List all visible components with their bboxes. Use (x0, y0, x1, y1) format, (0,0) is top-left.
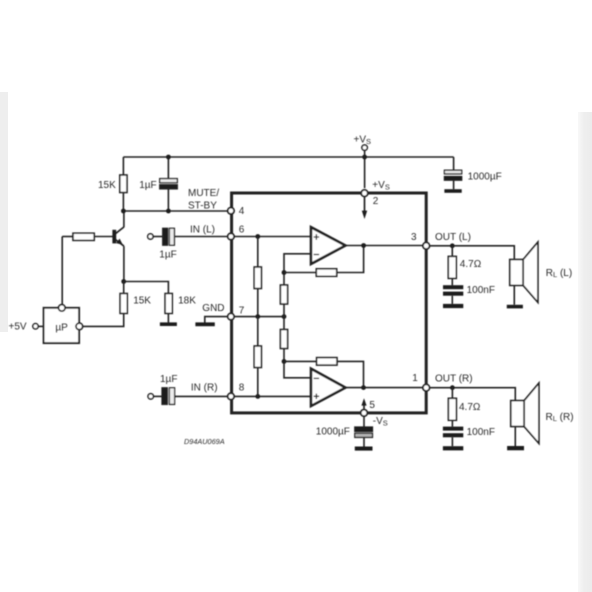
IC box TDA outline (232, 193, 427, 413)
svg-text:D94AU069A: D94AU069A (184, 437, 225, 446)
svg-text:-VS: -VS (373, 416, 388, 428)
input terminal IN(L) (148, 234, 153, 239)
pin 2 arrow into IC (362, 197, 367, 219)
ground (1000uF bottom) (355, 447, 373, 451)
capacitor C1 1uF plates (160, 179, 178, 189)
ground (GND pin 7) (195, 322, 214, 326)
svg-text:3: 3 (411, 232, 417, 243)
wire: pin 1 to speaker R (430, 388, 516, 401)
wire: pin 3 to speaker L (430, 246, 515, 260)
wire: junction to 4.7ohm R (451, 388, 453, 399)
node: supply junction over C1 (166, 155, 171, 160)
node: emitter junction (121, 279, 126, 284)
svg-text:+VS: +VS (354, 135, 372, 147)
wire: Rb to row7 (283, 304, 285, 317)
svg-text:GND: GND (202, 303, 224, 314)
pin 5 circle (361, 410, 368, 417)
pin 2 circle (361, 190, 368, 197)
wire: +5V to uP (38, 325, 43, 327)
wire: emitter junction to R3 (123, 282, 125, 294)
ground (18K) (160, 322, 177, 326)
uP top pin circle (59, 305, 66, 312)
+5V terminal (33, 324, 38, 329)
ground (speaker L) (507, 305, 523, 309)
svg-text:1µF: 1µF (139, 180, 156, 191)
wire: amp2 output row to pin 1 (345, 387, 423, 389)
resistor 4.7ohm R (448, 398, 456, 420)
wire: 1000uF top cap drop (453, 157, 455, 170)
svg-text:IN (R): IN (R) (191, 383, 218, 394)
pin 3 circle (423, 243, 430, 250)
ground (top right 1000uF) (444, 189, 461, 193)
svg-text:2: 2 (373, 196, 379, 207)
svg-text:4: 4 (239, 206, 245, 217)
svg-text:4.7Ω: 4.7Ω (460, 259, 482, 270)
wire: amp1 inverting input (284, 254, 311, 273)
wire: top supply rail (123, 156, 453, 158)
wire: Ra to row7 (257, 289, 259, 317)
resistor R2 (base, horizontal) (73, 233, 94, 240)
wire: junction to 4.7ohm L (451, 246, 453, 257)
op-amp A2 (right channel) (311, 369, 345, 406)
wire: feedback left segment top (284, 272, 316, 274)
wire: 100nF L to ground (451, 296, 453, 304)
node: mute row junction R1 (121, 209, 126, 214)
wire: R2 to left column (62, 236, 73, 238)
wire: Rd to feedback junction bottom (283, 349, 285, 362)
svg-text:OUT (L): OUT (L) (435, 232, 471, 243)
resistor R3 15K (lower left) (120, 294, 127, 314)
wire: 1000uF to ground (453, 180, 455, 189)
svg-text:1000µF: 1000µF (316, 426, 350, 437)
resistor feedback bottom (317, 358, 337, 366)
wire: amp2 inverting input (284, 361, 311, 377)
svg-text:4.7Ω: 4.7Ω (459, 402, 481, 413)
wire: terminal to C3 (153, 395, 162, 397)
wire: 100nF R to ground (451, 437, 453, 446)
svg-text:RL (L): RL (L) (546, 268, 572, 279)
svg-text:+VS: +VS (372, 180, 390, 192)
wire: row7 to Rd (283, 317, 285, 330)
wire: emitter junction over to 18K (124, 282, 169, 294)
transistor Q1 base wire (94, 236, 112, 238)
wire: feedback right segment bottom (337, 361, 364, 387)
svg-text:100nF: 100nF (467, 285, 495, 296)
capacitor 1000uF (top right) plates (444, 170, 461, 180)
node: out L junction (450, 243, 455, 248)
node: row6 junction (255, 234, 260, 239)
svg-text:1000µF: 1000µF (468, 171, 502, 182)
wire: left column to R1 top (122, 157, 124, 175)
svg-text:IN (L): IN (L) (190, 225, 215, 236)
resistor internal Rc (254, 346, 261, 368)
+Vs supply terminal (362, 145, 367, 150)
svg-text:7: 7 (239, 305, 245, 316)
node: row8 junction (255, 394, 260, 399)
wire: Rc to row8 (257, 368, 259, 397)
svg-text:OUT (R): OUT (R) (435, 374, 473, 385)
svg-text:ST-BY: ST-BY (188, 201, 217, 212)
resistor R1 15K (top left) (120, 175, 127, 193)
wire: row7 to Rc (257, 317, 259, 346)
wire: terminal to C2 (153, 236, 163, 238)
wire: 4.7ohm L to 100nF L (451, 278, 453, 285)
resistor internal Rd (280, 330, 287, 349)
wire: R3 bottom to uP right pin (83, 313, 124, 326)
svg-text:5: 5 (369, 400, 375, 411)
wire: row6 junction down (257, 237, 259, 268)
capacitor 100nF R (443, 427, 463, 438)
capacitor 1000uF (bottom) plates (355, 427, 373, 437)
pin 7 circle (228, 313, 234, 319)
wire: R1 bottom to mute row (122, 193, 124, 212)
wire: row 6 inside IC (234, 236, 311, 238)
input terminal IN(R) (148, 394, 153, 399)
svg-text:µP: µP (55, 322, 68, 333)
ground (100nF L) (443, 304, 463, 308)
svg-text:15K: 15K (98, 180, 116, 191)
capacitor C2 1uF (IN L coupling) (163, 228, 175, 245)
wire: C2 to pin 6 (174, 236, 227, 238)
wire: C3 to pin 8 (175, 395, 228, 397)
wire: pin7 to ground (205, 317, 228, 323)
capacitor C1 1uF top wire (167, 157, 169, 179)
resistor R4 18K (165, 294, 172, 314)
wire: R4 to ground (167, 313, 169, 322)
left page-edge shading band (0, 92, 8, 332)
ground (100nF R) (443, 446, 463, 450)
wire: mute/st-by row to pin 4 (123, 210, 227, 212)
wire: +Vs terminal drop to pin 2 (364, 150, 366, 188)
wire: Rb top (283, 273, 285, 286)
pin 6 circle (228, 233, 234, 239)
speaker RL(L) (510, 242, 538, 305)
speaker RL(R) (511, 383, 539, 446)
node: feedback junction bottom (282, 359, 287, 364)
node: amp2 output junction (361, 385, 366, 390)
svg-text:8: 8 (239, 382, 245, 393)
capacitor C1 bottom wire (167, 189, 169, 211)
wire: row 8 inside IC (234, 395, 311, 397)
resistor 4.7ohm L (448, 256, 456, 278)
node: mute row junction C1 (166, 209, 171, 214)
resistor internal Rb (280, 285, 287, 304)
transistor Q1 (112, 211, 124, 282)
svg-text:1µF: 1µF (160, 374, 177, 385)
op-amp A1 (left channel) (311, 227, 345, 264)
pin 4 circle (228, 208, 234, 214)
wire: feedback right segment top (337, 246, 364, 273)
ground (speaker R) (507, 446, 524, 450)
wire: row 7 inside IC (234, 316, 284, 318)
uP right pin circle (76, 323, 83, 330)
svg-text:6: 6 (239, 225, 245, 236)
microcontroller uP box (44, 308, 80, 343)
node: row7 junction a (255, 314, 260, 319)
wire: 1000uF bottom to ground (363, 437, 365, 446)
pin 1 circle (423, 384, 430, 391)
resistor feedback top (316, 269, 336, 277)
capacitor C3 1uF (IN R coupling) (162, 388, 175, 405)
pin 5 arrow into IC (361, 398, 366, 409)
node: row7 junction b (282, 314, 287, 319)
wire: feedback left segment bottom (284, 360, 317, 362)
node: feedback junction top (282, 270, 287, 275)
resistor internal Ra (254, 267, 261, 289)
svg-text:+5V: +5V (9, 322, 27, 333)
svg-text:18K: 18K (178, 295, 196, 306)
svg-text:100nF: 100nF (467, 427, 495, 438)
node: out R junction (450, 385, 455, 390)
svg-text:RL (R): RL (R) (546, 412, 574, 423)
svg-text:1µF: 1µF (159, 249, 176, 260)
pin 8 circle (228, 393, 234, 399)
wire: 4.7ohm R to 100nF R (451, 420, 453, 426)
wire: pin 5 to 1000uF bottom (363, 417, 365, 427)
node: amp1 output junction (361, 243, 366, 248)
wire: left column down to uP top pin (61, 237, 63, 305)
right page-edge shading band (578, 112, 592, 592)
svg-text:MUTE/: MUTE/ (188, 188, 219, 199)
wire: amp1 output row to pin 3 (345, 245, 423, 247)
svg-text:15K: 15K (133, 295, 151, 306)
node: supply junction over pin2 (362, 155, 367, 160)
capacitor 100nF L (443, 285, 463, 296)
svg-text:1: 1 (412, 373, 418, 384)
